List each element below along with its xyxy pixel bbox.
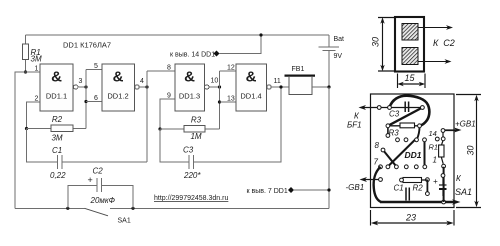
svg-text:5: 5 xyxy=(94,63,98,70)
switch SA1 xyxy=(85,208,131,224)
svg-text:220*: 220* xyxy=(183,171,201,180)
svg-text:C3: C3 xyxy=(183,146,194,155)
node pin13 junction xyxy=(218,100,221,103)
trace ground loop left xyxy=(374,167,381,202)
svg-text:12: 12 xyxy=(227,65,235,72)
svg-text:10: 10 xyxy=(211,78,219,85)
svg-text:15: 15 xyxy=(405,73,416,83)
resistor R1 xyxy=(23,35,42,72)
resistor R1 on board xyxy=(429,132,446,164)
trace diagonal DD1 left xyxy=(383,150,396,167)
svg-text:DD1.4: DD1.4 xyxy=(240,92,261,101)
svg-text:4: 4 xyxy=(140,78,144,85)
svg-text:6: 6 xyxy=(94,95,98,102)
svg-text:+GB1: +GB1 xyxy=(455,120,476,129)
svg-text:3M: 3M xyxy=(51,134,62,143)
pads top area xyxy=(377,106,426,142)
svg-text:БF1: БF1 xyxy=(347,121,362,130)
label to pin 7 DD1 xyxy=(247,187,330,195)
svg-text:R2: R2 xyxy=(413,184,424,193)
svg-text:C1: C1 xyxy=(52,146,62,155)
svg-text:SA1: SA1 xyxy=(118,218,131,225)
svg-text:К С2: К С2 xyxy=(433,38,455,48)
svg-text:DD1.1: DD1.1 xyxy=(46,92,67,101)
node output10 junction xyxy=(218,85,221,88)
op-amp gate DD1.4 xyxy=(236,64,281,111)
PCB board outline xyxy=(371,94,455,208)
capacitor C1 on board xyxy=(394,184,410,201)
svg-text:3: 3 xyxy=(79,78,83,85)
node C2 left junction xyxy=(66,207,69,210)
node pin7 rail junction xyxy=(327,188,330,191)
svg-text:к выв. 7 DD1: к выв. 7 DD1 xyxy=(247,188,288,195)
trace to BF1 (top left) xyxy=(359,105,423,110)
capacitor C3 on board xyxy=(389,102,409,119)
wire pin 2 of DD1.1 xyxy=(27,96,41,129)
svg-text:3M: 3M xyxy=(31,54,42,63)
svg-text:20мкФ: 20мкФ xyxy=(90,196,116,205)
wire riser pin12/pin13/R3 xyxy=(219,71,221,129)
svg-text:C2: C2 xyxy=(93,167,104,176)
wire pin 5 of DD1.2 xyxy=(86,63,102,70)
wire riser C1 right to pin 8 xyxy=(146,71,148,162)
trace right column xyxy=(425,142,444,203)
node pin1/R1 junction xyxy=(24,70,27,73)
capacitor C3 xyxy=(160,87,281,180)
wire lead lower to C2 xyxy=(418,59,452,64)
svg-text:DD1.3: DD1.3 xyxy=(179,92,200,101)
wire output 11 to FB1 xyxy=(271,86,289,88)
svg-text:+: + xyxy=(88,175,93,185)
svg-text:DD1.2: DD1.2 xyxy=(107,92,128,101)
trace diagonal C3 to R3 xyxy=(388,108,423,126)
svg-text:1: 1 xyxy=(35,66,39,73)
trace loop around C3 xyxy=(390,96,430,126)
svg-text:23: 23 xyxy=(405,213,416,223)
svg-text:R2: R2 xyxy=(52,115,63,124)
dimension 15 (top drawing) xyxy=(397,73,425,88)
node C2 right junction xyxy=(131,207,134,210)
svg-text:R1: R1 xyxy=(429,143,439,152)
svg-text:30: 30 xyxy=(371,37,381,47)
svg-text:14: 14 xyxy=(429,129,437,138)
pad row DD1 bottom xyxy=(379,148,446,169)
resistor R3 on board xyxy=(388,123,420,138)
svg-text:1M: 1M xyxy=(190,132,201,141)
dimension 23 (board) xyxy=(371,210,455,226)
trace to -GB1 xyxy=(360,177,383,182)
battery Bat 9V xyxy=(319,35,345,87)
wire pin 13 of DD1.4 xyxy=(220,96,237,103)
op-amp gate DD1.1 xyxy=(40,64,83,111)
svg-text:1: 1 xyxy=(433,156,437,165)
wire bottom rail xyxy=(15,207,329,209)
svg-text:8: 8 xyxy=(167,65,171,72)
svg-text:11: 11 xyxy=(274,78,281,85)
svg-text:13: 13 xyxy=(227,96,235,103)
trace diagonal DD1 right xyxy=(388,140,415,167)
svg-text:FB1: FB1 xyxy=(292,66,305,73)
svg-text:R3: R3 xyxy=(191,116,202,125)
svg-text:-GB1: -GB1 xyxy=(346,183,365,192)
svg-text:&: & xyxy=(246,69,257,86)
trace pin14 to +GB1 xyxy=(441,128,461,133)
svg-text:8: 8 xyxy=(375,141,380,150)
svg-text:&: & xyxy=(51,69,62,86)
wire pin 8 of DD1.3 xyxy=(147,65,175,72)
wire output 10 xyxy=(209,86,220,88)
wire lead upper to C2 xyxy=(418,25,453,30)
wire output 4 xyxy=(139,86,147,88)
resistor R2 xyxy=(27,115,87,143)
wire pin 6 of DD1.2 xyxy=(86,95,102,102)
op-amp gate DD1.3 xyxy=(175,64,218,111)
trace stub R3 left down xyxy=(387,127,389,134)
capacitor C2 electrolytic on board xyxy=(433,174,447,196)
svg-text:30: 30 xyxy=(466,145,476,155)
trace R2 right down xyxy=(426,180,430,196)
resistor R3 xyxy=(160,116,220,142)
svg-text:2: 2 xyxy=(35,96,39,103)
svg-text:+: + xyxy=(433,177,438,186)
svg-text:7: 7 xyxy=(374,158,379,167)
node pin6 junction xyxy=(84,100,87,103)
trace bottom to SA1 xyxy=(380,199,461,205)
node R2 left junction xyxy=(25,127,28,130)
resistor R2 on board xyxy=(400,178,430,193)
node FB1 rail junction xyxy=(327,85,330,88)
dimension 30 (board) xyxy=(456,95,481,208)
svg-text:&: & xyxy=(184,69,195,86)
capacitor C1 xyxy=(27,129,148,181)
svg-text:DD1 К176ЛА7: DD1 К176ЛА7 xyxy=(63,41,111,50)
svg-text:http://299792458.3dn.ru: http://299792458.3dn.ru xyxy=(154,195,228,202)
dimension 30 (top drawing) xyxy=(371,17,396,71)
svg-text:9V: 9V xyxy=(334,53,343,60)
node output4 junction xyxy=(145,85,148,88)
capacitor C2 xyxy=(68,167,133,209)
wire riser pin5/pin6/R2 xyxy=(85,70,87,129)
node C3 right junction xyxy=(279,85,282,88)
svg-text:C1: C1 xyxy=(394,184,404,193)
transducer contact pad upper xyxy=(402,24,418,41)
speaker FB1 xyxy=(285,66,316,95)
wire pin 1 of DD1.1 xyxy=(26,66,41,73)
trace stub R3 right down xyxy=(417,127,420,139)
wire pin 12 of DD1.4 xyxy=(220,65,237,72)
label K BF1 xyxy=(347,112,362,130)
wire FB1 right to rail xyxy=(312,86,329,88)
wire left branch from pin1 node down xyxy=(15,72,26,208)
wire output 3 xyxy=(78,86,86,88)
svg-text:C3: C3 xyxy=(389,110,400,119)
wire right rail xyxy=(328,87,330,208)
label to pin 14 DD1 xyxy=(170,35,261,59)
svg-text:Bat: Bat xyxy=(334,36,345,43)
op-amp gate DD1.2 xyxy=(102,64,144,111)
label K SA1 xyxy=(455,174,472,197)
svg-text:&: & xyxy=(113,69,124,86)
node R3 left junction xyxy=(158,127,161,130)
svg-text:SA1: SA1 xyxy=(455,187,472,197)
transducer contact pad lower xyxy=(402,48,418,65)
node output3 junction xyxy=(84,85,87,88)
svg-text:DD1: DD1 xyxy=(405,150,422,160)
transducer body drawing (top right) xyxy=(395,17,424,72)
wire top +9V rail xyxy=(26,34,330,36)
node pin14 rail junction xyxy=(259,33,262,36)
svg-text:9: 9 xyxy=(167,93,171,100)
svg-text:к выв. 14 DD1: к выв. 14 DD1 xyxy=(170,52,215,59)
wire pin 9 of DD1.3 xyxy=(160,93,175,130)
svg-text:0,22: 0,22 xyxy=(50,171,66,180)
